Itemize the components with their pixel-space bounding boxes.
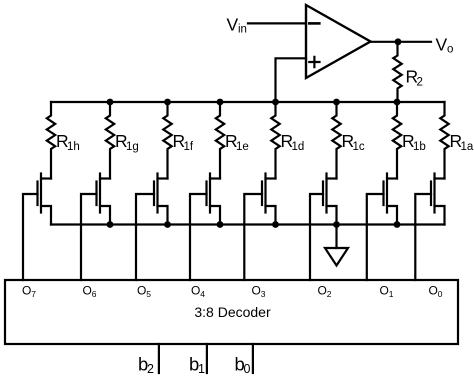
wire decoder input b0 [252, 344, 254, 373]
wire source bus to ground [335, 225, 337, 249]
ground [325, 248, 348, 266]
resistor R1h [47, 102, 55, 179]
wire decoder output O4 to gate of Q4 [190, 194, 207, 280]
resistor R2 [393, 42, 401, 102]
resistor R1e [216, 102, 224, 179]
transistor Q1 (switch for R1h) [38, 174, 52, 225]
op-amp U1 inverting input marker (-) [309, 22, 319, 25]
resistor R1g [106, 102, 114, 179]
wire decoder output O5 to gate of Q3 [136, 194, 154, 280]
node source bus junction x=220 [217, 221, 224, 228]
transistor Q4 (switch for R1e) [207, 174, 221, 225]
node source bus junction x=168 [164, 221, 171, 228]
transistor Q7 (switch for R1b) [384, 174, 398, 225]
resistor R1b [393, 102, 401, 179]
transistor Q2 (switch for R1g) [97, 174, 111, 225]
wire Vin to op-amp inverting input [248, 22, 306, 24]
resistor R1a [440, 102, 448, 179]
transistor Q3 (switch for R1f) [154, 174, 168, 225]
wire source bus (transistor sources rail) [51, 223, 445, 225]
node top bus junction x=276 [272, 99, 279, 106]
node top bus junction x=168 [164, 99, 171, 106]
wire top bus (resistor ladder rail) [51, 101, 445, 103]
wire decoder output O1 to gate of Q7 [367, 194, 384, 280]
op-amp U1 non-inverting input marker (+) [309, 57, 319, 67]
node source bus junction x=397 [394, 221, 401, 228]
transistor Q8 (switch for R1a) [431, 174, 445, 225]
wire op-amp output to Vo [371, 41, 432, 43]
node source bus junction x=276 [272, 221, 279, 228]
wire decoder output O2 to gate of Q6 [310, 194, 323, 280]
transistor Q6 (switch for R1c) [323, 174, 337, 225]
transistor Q5 (switch for R1d) [262, 174, 276, 225]
wire decoder output O6 to gate of Q2 [81, 194, 97, 280]
wire decoder output O7 to gate of Q1 [23, 194, 38, 280]
node top bus junction x=220 [217, 99, 224, 106]
wire decoder output O0 to gate of Q8 [415, 194, 431, 280]
node top bus junction x=397 [394, 99, 401, 106]
node output (Vo node dot) [395, 38, 402, 45]
resistor R1c [332, 102, 340, 179]
node top bus junction x=110 [107, 99, 114, 106]
node top bus junction x=336 [333, 99, 340, 106]
resistor R1f [163, 102, 171, 179]
node source bus junction x=336 [333, 221, 340, 228]
wire decoder output O3 to gate of Q5 [244, 194, 262, 280]
wire decoder input b1 [206, 344, 208, 373]
op-amp U1 [306, 5, 371, 78]
node source bus junction x=110 [107, 221, 114, 228]
resistor R1d [271, 102, 279, 179]
svg-text:3:8 Decoder: 3:8 Decoder [194, 304, 271, 320]
wire decoder input b2 [158, 344, 160, 373]
decoder U2 3:8 Decoder box [5, 280, 458, 344]
wire from top bus node to op-amp non-inverting input [276, 58, 307, 102]
